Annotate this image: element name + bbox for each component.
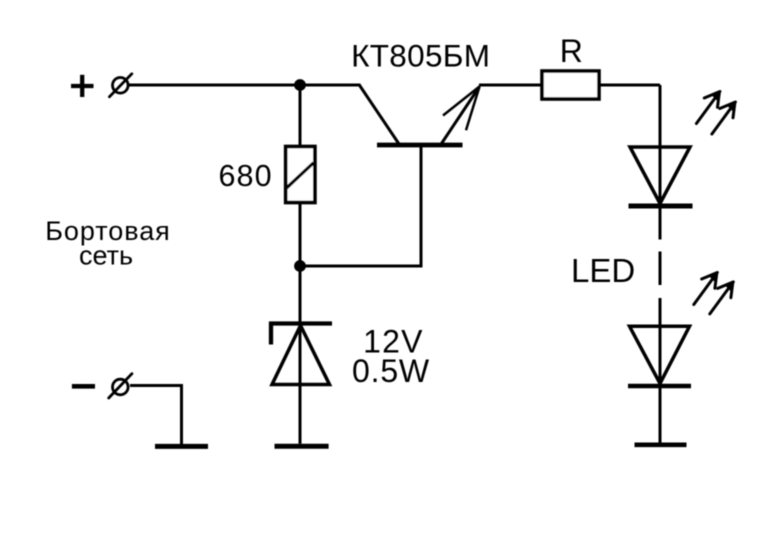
svg-text:0.5W: 0.5W <box>352 353 430 389</box>
svg-text:КТ805БМ: КТ805БМ <box>351 37 490 73</box>
svg-text:LED: LED <box>571 252 635 289</box>
svg-text:R: R <box>560 33 583 69</box>
svg-text:сеть: сеть <box>79 241 133 271</box>
svg-text:680: 680 <box>218 159 272 193</box>
